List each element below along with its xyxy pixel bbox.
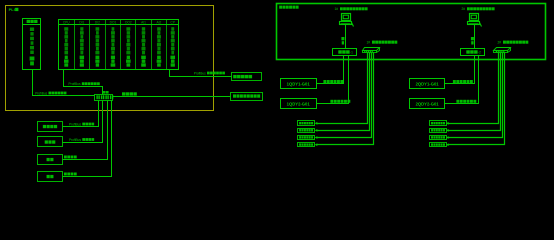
computer 2 keyboard key row — [469, 23, 479, 25]
svg-text:ProfiBus: ProfiBus — [69, 122, 81, 126]
arrowhead terminal 2 group 1 — [315, 129, 318, 132]
label comm cable (peripheral 4) — [64, 173, 77, 176]
module PS (power supply) box — [23, 19, 41, 70]
text terminal 3 group 2 — [431, 136, 445, 138]
label ProfiBus cable (PS wire) — [35, 91, 66, 95]
label bus cable (station wire) — [122, 92, 137, 95]
box terminal 1 group 2 — [430, 121, 447, 126]
svg-text:CPU: CPU — [63, 21, 70, 25]
arrowhead terminal 3 group 2 — [446, 136, 449, 139]
text terminal 2 group 2 — [431, 129, 445, 131]
computer 1 screen — [343, 15, 348, 19]
svg-text:ProfiBus: ProfiBus — [194, 72, 206, 76]
module rack header labels — [63, 21, 175, 25]
printer hub 1 side — [377, 48, 380, 53]
text switch 2 — [466, 50, 481, 54]
computer 1 monitor — [342, 14, 351, 21]
label printer hub 2 — [498, 40, 529, 44]
svg-text:1QDY1-G01: 1QDY1-G01 — [287, 81, 311, 86]
label ProfiBus cable (CPU wire) — [69, 82, 100, 86]
wire hub 1 port 2 to terminal 2 — [317, 53, 370, 131]
box PLC remote station — [232, 73, 262, 81]
computer 1 keyboard — [340, 22, 352, 25]
svg-text:2#: 2# — [462, 7, 466, 11]
wire CPU to DP connector — [64, 70, 103, 95]
label bus cable 1QDY2 — [330, 100, 350, 103]
computer 1 keyboard key row — [341, 23, 351, 25]
arrowhead terminal 1 group 2 — [446, 122, 449, 125]
printer hub 2 side — [508, 48, 511, 53]
printer hub 1 top — [363, 48, 380, 51]
text terminal 2 group 1 — [299, 129, 313, 131]
wire hub 2 port 2 to terminal 2 — [449, 53, 501, 131]
wire 1QDY1 to switch 1 — [317, 56, 344, 84]
box 2QDY1-G01 — [410, 79, 445, 89]
svg-text:DO1: DO1 — [110, 21, 117, 25]
printer hub 1 front — [363, 51, 377, 53]
wire 1QDY2 to switch 1 — [317, 56, 349, 104]
text terminal 4 group 2 — [431, 143, 445, 145]
PLC cabinet enclosure (yellow) — [6, 6, 214, 111]
box terminal 3 group 1 — [298, 136, 315, 140]
label bus cable 1QDY1 — [323, 80, 343, 83]
wire 2QDY2 to switch 2 — [445, 56, 479, 104]
switch box 1 — [333, 49, 357, 56]
box peripheral 4 (other) — [38, 172, 63, 182]
text peripheral 4 — [47, 175, 54, 178]
svg-text:AI1: AI1 — [141, 21, 146, 25]
text engineer station — [233, 94, 260, 97]
svg-text:-2: -2 — [478, 51, 481, 55]
label ProfiBus cable (peripheral 1) — [69, 122, 94, 126]
DP connector label — [103, 91, 109, 94]
printer hub 2 front — [494, 51, 508, 53]
wire DP pin4 to box other — [63, 101, 112, 177]
box peripheral 3 (DCS) — [38, 155, 63, 165]
wire CP module to remote PLC box — [170, 70, 232, 77]
wire DP pin3 to box DCS — [63, 101, 108, 160]
svg-text:2QDY1-G01: 2QDY1-G01 — [416, 81, 440, 86]
label net cable 1 (vertical) — [341, 37, 344, 45]
wire DP pin2 to box meter — [63, 101, 103, 143]
switch box 2 — [461, 49, 485, 56]
control room enclosure — [277, 4, 546, 60]
label monitor computer 1 — [335, 7, 368, 11]
box terminal 4 group 1 — [298, 143, 315, 147]
text terminal 3 group 1 — [299, 136, 313, 138]
text terminal 4 group 1 — [299, 143, 313, 145]
text peripheral 2 — [45, 140, 56, 143]
wire 2QDY1 to switch 2 — [445, 56, 475, 84]
svg-text:ProfiBus: ProfiBus — [69, 82, 81, 86]
arrowhead terminal 2 group 2 — [446, 129, 449, 132]
wire hub 2 port 3 to terminal 3 — [449, 53, 503, 138]
svg-text:CP: CP — [171, 21, 175, 25]
svg-text:ProfiBus: ProfiBus — [35, 91, 47, 95]
DP connector cells — [96, 95, 113, 99]
printer hub 2 top — [494, 48, 511, 51]
box 1QDY2-G01 — [281, 99, 317, 109]
text peripheral 1 — [43, 125, 57, 128]
text switch 1 — [338, 50, 353, 54]
svg-text:ProfiBus: ProfiBus — [69, 138, 81, 142]
svg-text:2QDY2-G01: 2QDY2-G01 — [416, 101, 440, 106]
module rack box — [59, 20, 179, 70]
computer 2 monitor — [470, 14, 479, 21]
label bus cable 2QDY2 — [456, 100, 476, 103]
box 1QDY1-G01 — [281, 79, 317, 89]
svg-text:2#: 2# — [498, 40, 502, 44]
box engineer station — [231, 93, 263, 101]
label printer hub 1 — [367, 40, 398, 44]
box terminal 4 group 2 — [430, 143, 447, 147]
text PLC remote station — [233, 75, 252, 78]
computer 2 screen — [471, 15, 476, 19]
label monitor computer 2 — [462, 7, 495, 11]
svg-text:DO2: DO2 — [125, 21, 132, 25]
wire DP pin1 to box instruments — [63, 101, 99, 127]
label net cable 2 (vertical) — [471, 37, 474, 45]
wire hub 1 port 1 to terminal 1 — [317, 53, 368, 124]
arrowhead terminal 3 group 1 — [315, 136, 318, 139]
svg-text:DI2: DI2 — [95, 21, 100, 25]
svg-text:1#: 1# — [367, 40, 371, 44]
box terminal 2 group 2 — [430, 129, 447, 133]
svg-text:-1: -1 — [350, 51, 353, 55]
module rack column dividers — [75, 20, 167, 70]
label PLC cabinet — [9, 7, 19, 12]
text terminal 1 group 1 — [299, 122, 313, 124]
text terminal 1 group 2 — [431, 122, 445, 124]
wire hub 2 port 4 to terminal 4 — [449, 53, 505, 145]
box peripheral 1 (online instruments) — [38, 122, 63, 132]
arrowhead terminal 4 group 2 — [446, 143, 449, 146]
module rack header divider — [59, 24, 179, 26]
svg-text:DI1: DI1 — [79, 21, 84, 25]
box terminal 3 group 2 — [430, 136, 447, 140]
text peripheral 3 — [47, 158, 54, 161]
box peripheral 2 (meters) — [38, 137, 63, 147]
DP connector block — [95, 95, 113, 101]
computer 2 mouse cable — [480, 23, 482, 27]
wire hub 2 port 1 to terminal 1 — [449, 53, 499, 124]
svg-text:1QDY2-G01: 1QDY2-G01 — [287, 101, 311, 106]
box 2QDY2-G01 — [410, 99, 445, 109]
computer 1 mouse cable — [352, 23, 354, 27]
module PS header divider — [23, 24, 41, 26]
wire PS to DP connector — [33, 70, 95, 96]
printer hub 1 ports — [364, 51, 373, 52]
control room label — [279, 6, 298, 9]
box terminal 2 group 1 — [298, 129, 315, 133]
label comm cable (peripheral 3) — [64, 156, 77, 159]
arrowhead terminal 1 group 1 — [315, 122, 318, 125]
wire DP connector to station box — [113, 96, 231, 98]
wire computer 2 to switch — [474, 25, 476, 49]
wire hub 1 port 3 to terminal 3 — [317, 53, 372, 138]
computer 2 keyboard — [468, 22, 480, 25]
module PS vertical name text — [30, 28, 35, 66]
box terminal 1 group 1 — [298, 121, 315, 126]
svg-text:1#: 1# — [335, 7, 339, 11]
module PS header label — [27, 20, 38, 23]
wire hub 1 port 4 to terminal 4 — [317, 53, 374, 145]
arrowhead terminal 4 group 1 — [315, 143, 318, 146]
wire computer 1 to switch — [345, 25, 347, 49]
svg-text:AI2: AI2 — [157, 21, 162, 25]
module rack vertical name texts — [64, 27, 175, 66]
printer hub 2 ports — [496, 51, 505, 52]
label bus cable 2QDY1 — [453, 80, 473, 83]
label ProfiBus cable (CP wire) — [194, 72, 225, 76]
label ProfiBus cable (peripheral 2) — [69, 138, 94, 142]
